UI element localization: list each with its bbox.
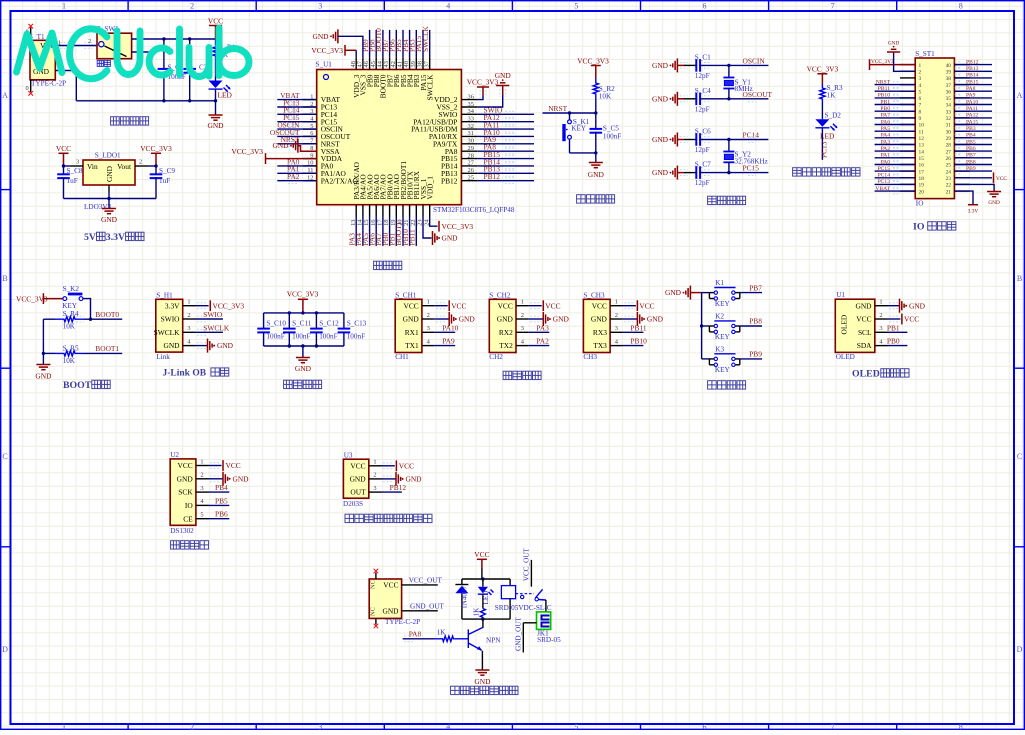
power port VCC at CH2 pin 1 [528,300,560,311]
no-ERC mark top of relay TYPE-C [374,569,379,574]
svg-text:GND: GND [163,341,180,350]
ground GND at U1 VSS_3 [312,29,362,57]
svg-text:VCC_OUT: VCC_OUT [523,547,531,581]
svg-text:6: 6 [703,723,707,730]
wire/net PB12 at U3 pin 3 [382,483,407,492]
svg-text:S_U1: S_U1 [316,61,333,69]
ground GND at U1 VSS_2 [477,71,511,107]
wire relay top rail [462,577,510,580]
relay coil SRD-05VDC-SL-C [495,579,552,619]
svg-text:GND: GND [233,474,250,483]
svg-text:GND: GND [588,170,605,179]
svg-text:NPN: NPN [486,637,501,645]
wire/net PB5 from ST1 pin 28 [954,139,992,147]
svg-text:U3: U3 [344,451,353,459]
wire/net PB0 at OLED pin 4 [887,337,908,346]
svg-text:GND: GND [101,215,118,224]
svg-text:VCC_OUT: VCC_OUT [409,577,443,585]
wire/net PA9 from ST1 pin 35 [954,93,992,101]
wire/net PA10 at CH1 pin 3 [434,323,458,332]
wire/net VCC_OUT to relay contact [523,547,532,586]
wire/net PB9 at U1 top [361,30,370,57]
svg-text:PB12: PB12 [484,172,501,181]
wire/net OSCIN to U1 pin 5 [277,121,316,133]
svg-text:VCC: VCC [498,301,513,310]
svg-text:13: 13 [919,143,925,149]
svg-text:PB11: PB11 [630,323,646,332]
svg-text:GND: GND [665,288,682,297]
wire/net PB4 at U2 pin 3 [209,483,230,492]
svg-text:U1: U1 [836,291,845,299]
capacitor S_C1 12pF [684,53,711,80]
svg-text:2: 2 [427,312,430,319]
resistor S_R1 1K [213,39,236,62]
svg-text:CH2: CH2 [489,353,503,361]
svg-text:BOOT1: BOOT1 [95,344,119,353]
svg-text:2: 2 [190,723,194,730]
wire/net NRST of reset [543,99,598,115]
svg-text:PB11: PB11 [408,229,417,245]
relay switch contacts [516,589,546,612]
power port VCC of LDO input [56,144,71,166]
resistor S_R4 10K [43,310,84,330]
svg-text:2: 2 [187,312,190,319]
wire/net PA2 to U1 pin 12 [277,172,316,184]
resistor S_R5 10K [43,344,84,364]
caption 继电器控制电路 [451,686,460,694]
svg-text:PA10: PA10 [966,99,978,105]
svg-text:GND: GND [295,364,312,373]
svg-text:7: 7 [919,103,922,109]
svg-text:1K: 1K [827,92,837,100]
svg-text:4: 4 [446,723,450,730]
svg-text:3: 3 [615,325,618,332]
svg-text:100nF: 100nF [266,332,284,340]
svg-text:U2: U2 [170,451,179,459]
wire/net PA10 from ST1 pin 34 [954,99,992,107]
wire/net PA11 from U1 pin 32 [477,121,534,133]
svg-text:VCC: VCC [208,16,223,25]
svg-text:VCC_3V3: VCC_3V3 [213,301,245,310]
svg-text:PA8: PA8 [409,629,422,638]
svg-text:PB0: PB0 [887,337,900,346]
svg-text:PB9: PB9 [749,350,762,359]
svg-text:PB4: PB4 [215,483,228,492]
wire/net PA10 from U1 pin 31 [477,128,534,140]
switch K1 KEY [702,279,740,308]
svg-text:7: 7 [831,2,835,11]
svg-text:PB10: PB10 [878,93,891,99]
svg-text:PA8: PA8 [966,86,976,92]
svg-text:PA3: PA3 [881,139,891,145]
svg-text:SWCLK: SWCLK [203,323,230,332]
wire/net PA3 at U1 bottom [347,217,356,246]
svg-text:S_CH1: S_CH1 [395,291,417,299]
wire/net BOOT0 [76,310,122,322]
power port VCC_3V3 at ST1 pin 1 [870,59,916,70]
svg-text:3: 3 [919,76,922,82]
svg-text:CH3: CH3 [583,353,597,361]
svg-text:VCC_3V3: VCC_3V3 [287,289,319,298]
wire/net SWCLK at U1 top [421,25,430,57]
wire K2 to BOOT0 [83,299,92,321]
svg-text:TYPE-C-2P: TYPE-C-2P [385,618,420,626]
power port VCC_3V3 at U1 VDDA [231,147,316,164]
svg-text:100nF: 100nF [603,133,621,141]
wire/net PB0 at U1 bottom [381,217,390,246]
svg-text:PA10: PA10 [442,323,458,332]
ground GND at U1 VSS_1 [423,217,458,246]
svg-text:GND_OUT: GND_OUT [410,602,445,610]
svg-text:30: 30 [946,129,952,135]
wire/net PB8 of key 2 [740,317,762,326]
svg-text:39: 39 [946,70,952,76]
wire/net PB14 from U1 pin 27 [477,157,534,169]
svg-text:SWIO: SWIO [161,315,181,324]
svg-text:SDA: SDA [857,341,872,350]
svg-text:OLED: OLED [836,353,855,361]
capacitor C3 [183,39,207,101]
wire/net PB15 from U1 pin 28 [477,150,534,162]
caption 时钟模块 [171,541,180,549]
svg-text:1: 1 [62,2,66,11]
svg-text:PB7: PB7 [749,283,762,292]
svg-text:34: 34 [946,103,952,109]
capacitor S_C13 100nF [338,313,367,346]
wire relay bottom rail [462,617,510,620]
svg-text:S_ST1: S_ST1 [915,50,935,58]
wire/net PB1 to ST1 pin 7 [875,99,916,107]
wire/net OSCIN [680,56,768,68]
svg-text:1: 1 [187,299,190,306]
power port VCC_3V3 at U1 VDD_1 [430,217,474,232]
svg-text:5: 5 [574,2,578,11]
svg-text:1: 1 [521,299,524,306]
svg-text:J-Link OB: J-Link OB [163,369,207,379]
pir module U3 D203S [343,451,382,508]
wire/net PA5 at U1 bottom [361,217,370,246]
svg-text:S_K2: S_K2 [63,285,80,293]
power port VCC_3V3 at U1 VDD_2 [467,77,499,99]
svg-text:VCC: VCC [383,581,398,590]
wire/net PC13 of run led [820,128,829,160]
led D1 LED [209,62,233,100]
ground GND at CH1 pin 2 [434,312,475,326]
svg-text:PA6: PA6 [881,119,891,125]
svg-text:TX3: TX3 [593,341,607,350]
power port VCC_3V3 at H1 pin 1 [195,300,244,311]
svg-text:SCL: SCL [858,328,872,337]
svg-text:SWCLK: SWCLK [421,25,430,52]
svg-text:LED: LED [218,91,233,100]
wire/net PA5 to ST1 pin 11 [875,126,916,134]
wire/net PA6 at U1 bottom [367,217,376,246]
svg-text:PB14: PB14 [966,73,979,79]
ground GND of crystal cap S_C7 [652,166,684,180]
wire/net NRST to U1 pin 7 [277,135,316,147]
wire/net PA15 at U1 top [414,30,423,57]
svg-text:PB12: PB12 [390,483,407,492]
wire/net BOOT1 at U1 bottom [394,217,403,246]
svg-text:D: D [1017,645,1023,654]
svg-text:NRST: NRST [548,104,567,113]
capacitor S_C11 100nF [283,313,312,346]
wire/net SWCLK at H1 [195,323,230,335]
wire/net PB14 from ST1 pin 38 [954,73,992,81]
svg-text:GND: GND [888,41,900,47]
svg-text:PC14: PC14 [743,131,760,140]
svg-text:32: 32 [946,116,952,122]
crystal S_Y2 32.768KHz [723,140,767,173]
display U1 OLED [835,291,887,361]
svg-text:GND: GND [474,677,491,686]
svg-text:16: 16 [919,163,925,169]
svg-text:S_C4: S_C4 [695,87,711,95]
svg-text:SRD-05: SRD-05 [537,636,561,644]
svg-text:GND: GND [495,71,512,80]
svg-text:OSCIN: OSCIN [743,56,766,65]
ground GND of keys [665,286,702,300]
wire/net PC14 to ST1 pin 18 [875,173,916,181]
svg-text:PA0: PA0 [881,159,891,165]
wire/net PB1 at U1 bottom [388,217,397,246]
wire/net PA7 to ST1 pin 9 [875,113,916,121]
svg-text:S_LDO1: S_LDO1 [95,152,121,160]
svg-text:5: 5 [919,89,922,95]
wire/net PA15 from ST1 pin 31 [954,119,992,127]
power port VCC_3V3 of reset [577,57,609,79]
svg-text:PA2: PA2 [881,146,891,152]
svg-text:PA12: PA12 [966,113,978,119]
svg-text:23: 23 [946,176,952,182]
svg-text:RX1: RX1 [405,328,419,337]
svg-text:2: 2 [373,472,376,479]
svg-text:VCC: VCC [856,315,871,324]
svg-text:5: 5 [200,512,203,519]
crystal S_Y1 8MHz [723,65,752,98]
svg-text:VCC: VCC [639,301,654,310]
svg-text:C: C [1017,452,1022,461]
svg-text:1: 1 [615,299,618,306]
wire VCC rail from SW1 pin3 [132,37,216,40]
svg-text:S_C9: S_C9 [159,167,175,175]
switch K2 KEY [702,312,740,341]
svg-text:0: 0 [26,85,29,92]
wire LDO ground rail [64,192,157,209]
ground GND at ST1 pin 2 [887,41,915,72]
svg-text:GND: GND [988,200,1000,206]
svg-text:4: 4 [919,83,922,89]
svg-text:IO: IO [916,200,924,208]
svg-text:2: 2 [88,38,91,45]
svg-text:VCC: VCC [403,301,418,310]
svg-text:BOOT: BOOT [63,380,92,391]
wire/net PB7 of key 1 [740,283,762,292]
svg-text:3: 3 [318,2,322,11]
svg-text:12pF: 12pF [695,72,710,80]
ground GND of LDO [101,209,118,225]
svg-text:GND: GND [652,168,669,177]
wire/net PA1 to ST1 pin 15 [875,153,916,161]
svg-text:GND: GND [591,315,608,324]
wire/net PA2 at CH2 pin 4 [528,337,549,346]
wire/net PA8 from ST1 pin 36 [954,86,992,94]
svg-text:KEY: KEY [715,366,731,374]
svg-text:2: 2 [919,70,922,76]
wire SW1 pin1 stub [132,51,150,53]
svg-text:S_H1: S_H1 [156,291,173,299]
svg-text:1: 1 [200,458,203,465]
wire/net PB8 at U1 top [367,30,376,57]
no-ERC mark top of T1 [28,24,33,29]
svg-text:NC: NC [370,607,377,616]
svg-text:VCC: VCC [904,315,919,324]
svg-text:8: 8 [919,109,922,115]
wire/net PC14 [680,131,768,143]
svg-text:26: 26 [946,156,952,162]
svg-text:CE: CE [183,514,193,523]
svg-text:VCC: VCC [56,144,71,153]
svg-text:CH1: CH1 [395,353,409,361]
wire/net NRST to ST1 pin 4 [875,79,916,87]
svg-text:VCC: VCC [399,461,414,470]
svg-text:D203S: D203S [343,500,363,508]
svg-text:RX2: RX2 [499,328,513,337]
svg-text:B: B [1017,274,1022,283]
svg-text:PB12: PB12 [966,59,979,65]
wire/net SWIO from U1 pin 34 [477,106,534,118]
svg-text:GND: GND [217,341,234,350]
power port VCC at OLED pin 2 [888,314,920,325]
ground GND of filter [295,346,312,373]
svg-text:12pF: 12pF [695,146,710,154]
svg-text:VCC_3V3: VCC_3V3 [231,147,263,156]
svg-text:PA2: PA2 [287,172,300,181]
wire/net PB8 from ST1 pin 25 [954,159,992,167]
wire/net PB12 from ST1 pin 40 [954,59,992,67]
transistor NPN [462,619,501,651]
svg-text:GND: GND [272,141,289,150]
connector S_H1 Link header [154,291,195,361]
svg-text:3: 3 [521,325,524,332]
svg-text:1: 1 [62,723,66,730]
svg-text:IO: IO [913,222,925,233]
svg-text:GND: GND [553,315,570,324]
wire/net BOOT0 at U1 top [374,28,383,57]
wire/net PB4 from ST1 pin 29 [954,133,992,141]
caption 人体热释电感应模块 [345,514,354,522]
svg-text:VCC_3V3: VCC_3V3 [577,57,609,66]
switch K3 KEY [702,345,740,374]
svg-text:Vin: Vin [87,162,98,171]
wire/net PB11 at CH3 pin 3 [622,323,646,332]
wire/net PB9 of key 3 [740,350,762,359]
wire/net PA6 to ST1 pin 10 [875,119,916,127]
wire/net PB7 from ST1 pin 26 [954,153,992,161]
caption 电源电路 [111,117,120,125]
wire/net PA4 at U1 bottom [354,217,363,246]
led LED of relay [478,579,494,605]
caption 按键电路 [708,381,717,389]
wire/net PB12 from U1 pin 25 [477,172,534,184]
svg-text:1: 1 [373,459,376,466]
power port VCC at U2 pin 1 [209,460,241,471]
svg-text:VCC_3V3: VCC_3V3 [807,64,839,73]
svg-text:GND: GND [105,165,114,182]
svg-text:PB9: PB9 [966,166,976,172]
svg-text:6: 6 [919,96,922,102]
svg-text:NRST: NRST [876,79,891,85]
wire/net PC14 to U1 pin 3 [277,106,316,118]
svg-text:A: A [2,91,8,100]
svg-text:PB10: PB10 [630,337,647,346]
switch S_K2 KEY [43,285,83,310]
svg-text:GND: GND [647,315,664,324]
svg-text:VCC_3V3: VCC_3V3 [442,222,474,231]
power port VCC at CH3 pin 1 [622,300,654,311]
svg-text:NC: NC [370,580,377,589]
wire/net PC13 to U1 pin 2 [277,98,316,110]
wire/net PA8 base drive [403,629,434,641]
wire/net PA12 from ST1 pin 32 [954,113,992,121]
wire/net PC15 to U1 pin 4 [277,113,316,125]
svg-text:1K: 1K [437,629,447,637]
capacitor S_C9 1uF [148,164,176,198]
caption 串口电路 [503,371,512,379]
wire/net PB5 at U1 top [394,30,403,57]
svg-text:C: C [2,452,7,461]
svg-text:20: 20 [919,189,925,195]
svg-text:VCC_3V3: VCC_3V3 [140,144,172,153]
svg-text:VCC: VCC [996,176,1007,182]
svg-text:1: 1 [879,299,882,306]
svg-text:3: 3 [879,325,882,332]
wire/net PA11 from ST1 pin 33 [954,106,992,114]
ground GND of crystal cap S_C6 [652,133,684,147]
svg-text:GND: GND [652,94,669,103]
power port VCC_3V3 of LDO output [140,144,172,166]
svg-text:8: 8 [959,723,963,730]
wire power ground rail [55,71,217,116]
resistor S_R3 1K [820,84,843,103]
wire/net OSCOUT [680,90,773,102]
svg-text:38: 38 [946,76,952,82]
svg-text:4: 4 [446,2,450,11]
svg-text:3: 3 [76,159,79,166]
ground GND at ST1 pin 22 [954,184,1001,206]
svg-text:RX3: RX3 [593,328,607,337]
wire/net PB6 from ST1 pin 27 [954,146,992,154]
svg-text:8MHz: 8MHz [735,85,753,93]
no-ERC mark bottom of relay TYPE-C [374,624,379,629]
wire/net PB11 to ST1 pin 5 [875,86,916,94]
svg-text:GND: GND [442,234,459,243]
svg-text:PA11: PA11 [966,106,978,112]
wire/net PA7 at U1 bottom [374,217,383,246]
svg-text:KEY: KEY [715,300,731,308]
svg-text:STM32F103C8T6_LQFP48: STM32F103C8T6_LQFP48 [433,206,515,214]
capacitor S_C8 1uF [57,164,83,198]
svg-text:15: 15 [919,156,925,162]
svg-text:PA9: PA9 [442,337,455,346]
svg-text:K2: K2 [715,312,724,320]
svg-text:GND: GND [497,315,514,324]
resistor 1K of npn base [434,629,462,642]
svg-text:PB12: PB12 [441,176,458,185]
svg-text:2: 2 [521,312,524,319]
wire/net GND_OUT from TYPE-C [402,602,445,610]
ground GND at CH2 pin 2 [528,312,569,326]
